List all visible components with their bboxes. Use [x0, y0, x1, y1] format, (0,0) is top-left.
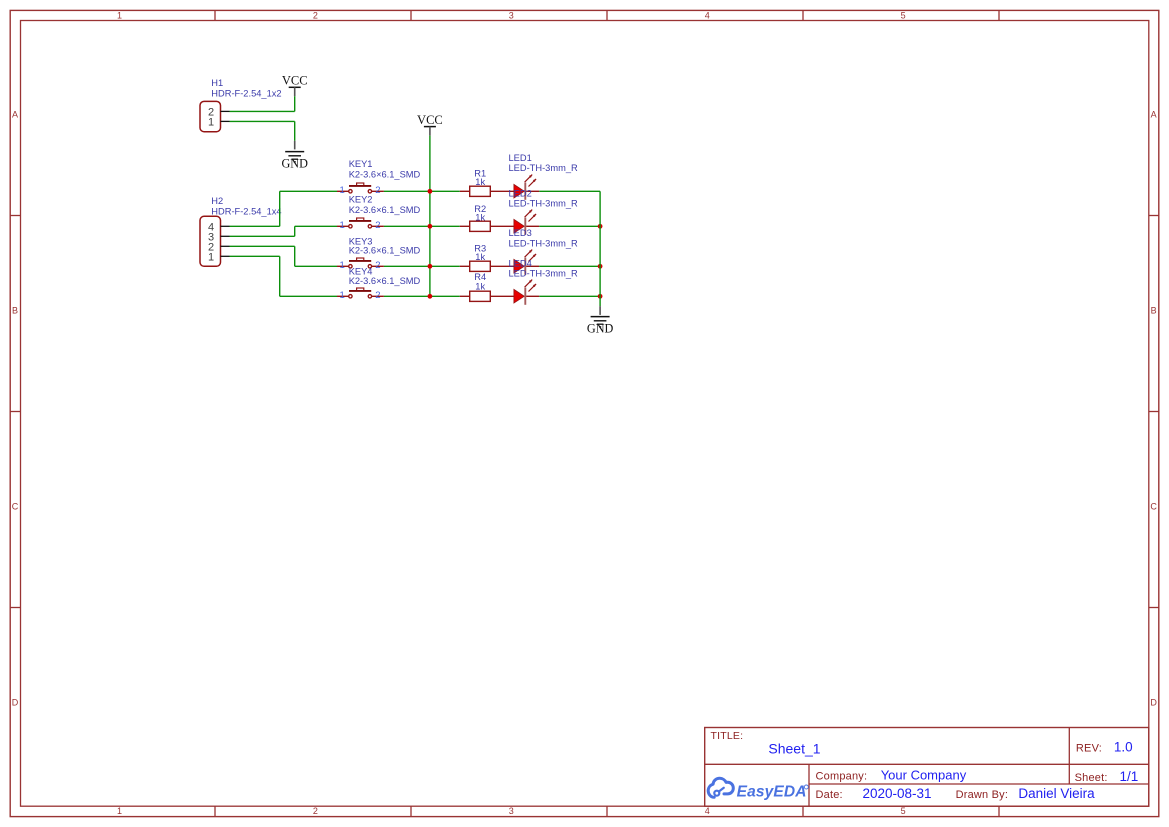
svg-text:LED-TH-3mm_R: LED-TH-3mm_R: [509, 269, 578, 279]
svg-text:KEY4: KEY4: [349, 266, 373, 276]
svg-text:LED2: LED2: [509, 188, 532, 198]
svg-text:TITLE:: TITLE:: [711, 730, 744, 742]
svg-text:A: A: [1151, 110, 1157, 120]
wire H2 pin3 to KEY2: [230, 226, 338, 236]
LED LED4 LED-TH-3mm_R: [509, 258, 578, 305]
wire LED4 to GND bus: [539, 295, 600, 297]
svg-text:K2-3.6×6.1_SMD: K2-3.6×6.1_SMD: [349, 246, 421, 256]
svg-text:C: C: [12, 502, 19, 512]
H2 pin 2: [221, 245, 230, 247]
svg-text:LED-TH-3mm_R: LED-TH-3mm_R: [509, 238, 578, 248]
power flag VCC (net VCC at H1): [282, 74, 308, 97]
svg-text:Sheet:: Sheet:: [1075, 772, 1108, 784]
svg-text:1: 1: [208, 117, 214, 129]
svg-text:2: 2: [375, 260, 380, 271]
LED LED3 LED-TH-3mm_R: [509, 228, 578, 275]
svg-text:LED-TH-3mm_R: LED-TH-3mm_R: [509, 199, 578, 209]
svg-text:K2-3.6×6.1_SMD: K2-3.6×6.1_SMD: [349, 170, 421, 180]
svg-text:KEY2: KEY2: [349, 195, 373, 205]
wire LED2 to GND bus: [539, 225, 600, 227]
junction on VCC bus row 3: [428, 264, 433, 269]
resistor R3 1k: [460, 244, 514, 272]
connector H1 HDR-F-2.54_1x2: [200, 78, 282, 132]
svg-text:C: C: [1150, 502, 1157, 512]
svg-text:Daniel Vieira: Daniel Vieira: [1018, 786, 1095, 801]
junction on VCC bus row 4: [428, 294, 433, 299]
svg-text:Company:: Company:: [816, 770, 868, 782]
svg-text:K2-3.6×6.1_SMD: K2-3.6×6.1_SMD: [349, 205, 421, 215]
svg-text:GND: GND: [587, 322, 614, 336]
wire H2 pin4 to KEY1: [230, 191, 338, 226]
junction on GND bus row 4: [598, 294, 603, 299]
svg-text:GND: GND: [281, 157, 308, 171]
resistor R4 1k: [460, 272, 514, 301]
svg-text:1: 1: [340, 260, 345, 271]
svg-text:Your Company: Your Company: [881, 767, 967, 782]
svg-text:B: B: [12, 306, 18, 316]
resistor R2 1k: [460, 204, 514, 232]
svg-text:5: 5: [901, 10, 906, 20]
svg-text:1.0: 1.0: [1114, 740, 1133, 755]
svg-text:HDR-F-2.54_1x2: HDR-F-2.54_1x2: [211, 88, 281, 98]
wire H2 pin1 to KEY4: [230, 256, 338, 296]
svg-text:5: 5: [901, 806, 906, 816]
svg-text:3: 3: [509, 10, 514, 20]
svg-text:REV:: REV:: [1076, 743, 1102, 755]
svg-text:LED3: LED3: [509, 228, 532, 238]
svg-text:EasyEDA: EasyEDA: [737, 784, 807, 801]
wire H2 pin2 to KEY3: [230, 246, 338, 266]
svg-text:H2: H2: [211, 196, 223, 206]
svg-text:LED-TH-3mm_R: LED-TH-3mm_R: [509, 163, 578, 173]
svg-text:VCC: VCC: [282, 74, 308, 88]
svg-text:2: 2: [375, 220, 380, 231]
svg-text:1: 1: [340, 290, 345, 301]
wire KEY1 to R1: [384, 190, 460, 192]
LED LED2 LED-TH-3mm_R: [509, 188, 578, 234]
junction on GND bus row 3: [598, 264, 603, 269]
junction on GND bus row 2: [598, 224, 603, 229]
svg-text:2: 2: [313, 806, 318, 816]
wire VCC bus vertical: [429, 136, 431, 297]
svg-text:2020-08-31: 2020-08-31: [863, 786, 932, 801]
svg-text:1: 1: [340, 220, 345, 231]
switch KEY3 K2-3.6x6.1_SMD: [337, 236, 421, 271]
svg-text:2: 2: [375, 185, 380, 196]
svg-text:D: D: [12, 698, 19, 708]
svg-text:B: B: [1151, 306, 1157, 316]
switch KEY1 K2-3.6x6.1_SMD: [337, 159, 421, 196]
ground flag GND (at H1): [281, 141, 308, 171]
svg-text:Sheet_1: Sheet_1: [768, 741, 820, 757]
svg-text:HDR-F-2.54_1x4: HDR-F-2.54_1x4: [211, 206, 281, 216]
svg-text:1k: 1k: [475, 281, 485, 291]
H2 pin 4: [221, 225, 230, 227]
svg-text:Drawn By:: Drawn By:: [956, 789, 1009, 801]
wire LED3 to GND bus: [539, 265, 600, 267]
H2 pin 1: [221, 255, 230, 257]
EasyEDA logo: [708, 778, 808, 800]
svg-text:1: 1: [117, 10, 122, 20]
svg-text:2: 2: [375, 290, 380, 301]
switch KEY4 K2-3.6x6.1_SMD: [337, 266, 421, 301]
svg-text:K2-3.6×6.1_SMD: K2-3.6×6.1_SMD: [349, 276, 421, 286]
svg-text:A: A: [12, 110, 18, 120]
svg-text:1: 1: [208, 252, 214, 264]
svg-text:3: 3: [509, 806, 514, 816]
junction on VCC bus row 1: [428, 189, 433, 194]
resistor R1 1k: [460, 169, 514, 197]
wire KEY4 to R4: [384, 295, 460, 297]
svg-text:VCC: VCC: [417, 113, 443, 127]
wire H1 pin1 to GND corner: [230, 120, 295, 122]
power flag VCC (net VCC at key bus): [417, 113, 443, 136]
svg-text:Date:: Date:: [816, 789, 843, 801]
title block: [705, 728, 1149, 807]
svg-text:H1: H1: [211, 78, 223, 88]
svg-text:LED4: LED4: [509, 258, 532, 268]
svg-text:D: D: [1150, 698, 1157, 708]
junction on VCC bus row 2: [428, 224, 433, 229]
wire KEY2 to R2: [384, 225, 460, 227]
wire LED1 to GND bus: [539, 190, 600, 192]
svg-text:LED1: LED1: [509, 153, 532, 163]
svg-text:4: 4: [705, 806, 710, 816]
wire GND drop at H1: [294, 121, 296, 140]
wire VCC stub to H1 pin2 corner: [294, 96, 296, 111]
svg-text:2: 2: [313, 10, 318, 20]
LED LED1 LED-TH-3mm_R: [509, 153, 578, 200]
wire GND bus vertical: [599, 191, 601, 306]
svg-text:KEY1: KEY1: [349, 159, 373, 169]
svg-text:1: 1: [340, 185, 345, 196]
wire KEY3 to R3: [384, 265, 460, 267]
wire H1 pin2 to VCC: [230, 110, 295, 112]
H1 pin 1: [221, 120, 230, 122]
svg-text:4: 4: [705, 10, 710, 20]
H2 pin 3: [221, 235, 230, 237]
H1 pin 2: [221, 110, 230, 112]
switch KEY2 K2-3.6x6.1_SMD: [337, 195, 421, 231]
svg-text:1: 1: [117, 806, 122, 816]
svg-text:1/1: 1/1: [1120, 769, 1139, 784]
ground flag GND (at LED bus): [587, 306, 614, 335]
connector H2 HDR-F-2.54_1x4: [200, 196, 282, 266]
